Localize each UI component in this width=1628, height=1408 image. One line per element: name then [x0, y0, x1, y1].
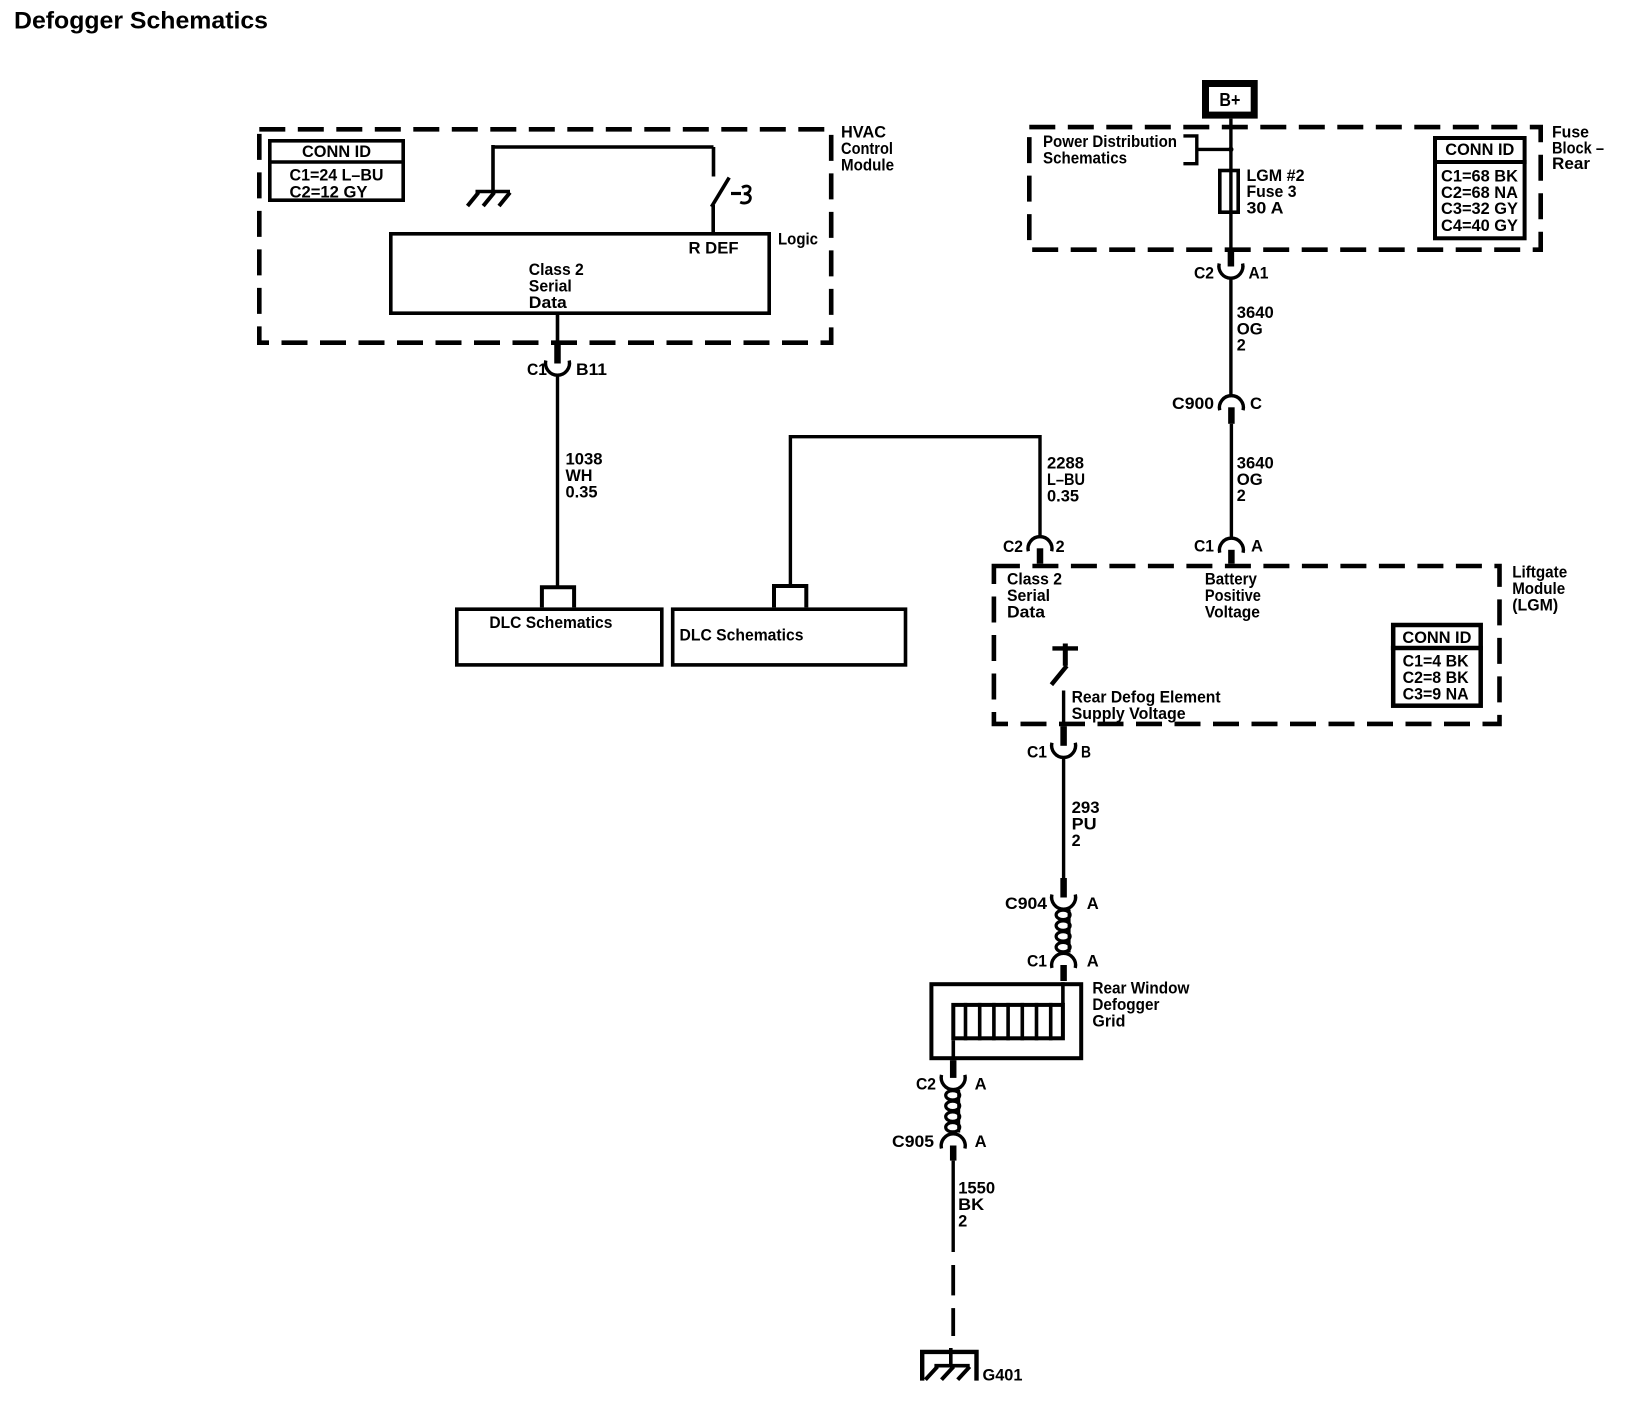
svg-text:C1: C1 [1027, 743, 1047, 762]
wire: ground to switch (internal top wire) [493, 145, 714, 149]
wire 1038 WH 0.35 [556, 376, 559, 588]
svg-text:A: A [975, 1075, 987, 1094]
svg-text:C1: C1 [527, 360, 547, 379]
svg-text:Data: Data [529, 293, 568, 312]
svg-text:(LGM): (LGM) [1512, 596, 1558, 615]
dashed continuation wire to G401 [951, 1265, 955, 1295]
svg-text:C4=40 GY: C4=40 GY [1441, 216, 1519, 235]
svg-text:C900: C900 [1172, 394, 1214, 413]
logic box (Class 2 Serial Data) [391, 234, 769, 313]
svg-text:A: A [1087, 952, 1099, 971]
rear window defogger grid box [931, 984, 1081, 1058]
wire: logic box to C1 B11 [556, 315, 560, 345]
svg-text:C1: C1 [1027, 952, 1047, 971]
svg-text:30 A: 30 A [1247, 198, 1284, 217]
connector C905 A [941, 1134, 965, 1161]
svg-text:B: B [1081, 743, 1091, 762]
svg-text:DLC Schematics: DLC Schematics [489, 613, 612, 632]
svg-text:A: A [1087, 894, 1099, 913]
svg-text:Voltage: Voltage [1205, 602, 1260, 621]
Liftgate Module (LGM) box [994, 566, 1500, 724]
connector C2 A1 (fuse block out) [1219, 249, 1243, 278]
ground G401 bracket [922, 1352, 976, 1381]
svg-text:A: A [975, 1132, 987, 1151]
wire: B+ down to C2 A1 [1229, 119, 1232, 249]
switch actuator squiggle [731, 186, 750, 203]
wire 293 PU 2 [1062, 758, 1065, 880]
DLC Schematics box 1 [457, 609, 662, 665]
wire 1550 BK 2 [952, 1161, 955, 1252]
svg-text:C2: C2 [916, 1075, 936, 1094]
svg-text:Schematics: Schematics [1043, 148, 1127, 167]
wire 3640 OG 2 (upper) [1229, 279, 1232, 397]
svg-text:Data: Data [1007, 602, 1046, 621]
power distribution bracket [1183, 136, 1231, 164]
svg-text:2: 2 [1072, 831, 1081, 850]
svg-text:Grid: Grid [1092, 1012, 1125, 1031]
coiled wire (liftgate flex) upper [1056, 910, 1070, 953]
svg-text:2: 2 [1056, 537, 1065, 556]
svg-text:CONN ID: CONN ID [1402, 628, 1471, 647]
svg-text:2: 2 [1237, 486, 1246, 505]
svg-text:C2: C2 [1194, 264, 1214, 283]
svg-text:0.35: 0.35 [1047, 487, 1079, 506]
HVAC Control Module box [259, 129, 831, 342]
grid element symbol [953, 982, 1063, 1040]
connector C1 A (defogger grid in) [1052, 953, 1076, 981]
Fuse block CONN ID table [1433, 138, 1527, 238]
svg-text:B+: B+ [1219, 90, 1240, 110]
wire into ground bracket [949, 1348, 953, 1364]
svg-text:Rear: Rear [1552, 154, 1590, 173]
svg-text:C2=12 GY: C2=12 GY [290, 183, 369, 202]
svg-text:CONN ID: CONN ID [1445, 140, 1514, 159]
wire 2288 L-BU 0.35 (DLC2 up-over to C2/2) [790, 437, 1040, 586]
svg-text:R DEF: R DEF [689, 239, 739, 258]
svg-text:Defogger Schematics: Defogger Schematics [14, 8, 268, 35]
svg-text:C2: C2 [1003, 537, 1023, 556]
svg-text:Supply Voltage: Supply Voltage [1072, 704, 1186, 723]
svg-text:A1: A1 [1249, 264, 1269, 283]
Fuse Block - Rear box [1029, 127, 1540, 250]
DLC Schematics box 2 [673, 609, 906, 665]
connector C1 A (LGM battery in) [1219, 538, 1243, 564]
svg-text:C905: C905 [892, 1132, 934, 1151]
connector C2 A (grid out) [941, 1060, 965, 1089]
connector C2 2 (LGM serial) [1028, 537, 1052, 564]
coiled wire (liftgate flex) lower [946, 1090, 960, 1133]
HVAC CONN ID table [268, 141, 405, 200]
svg-text:2: 2 [958, 1212, 967, 1231]
connector C1 B11 (HVAC) [546, 345, 570, 375]
wire: down to ground symbol [491, 145, 495, 190]
svg-text:DLC Schematics: DLC Schematics [680, 626, 804, 645]
svg-text:CONN ID: CONN ID [302, 142, 371, 161]
wire: switch to C1 B [1062, 691, 1065, 727]
svg-text:0.35: 0.35 [566, 483, 598, 502]
ground G401 symbol [925, 1366, 969, 1380]
svg-text:C3=9 NA: C3=9 NA [1403, 685, 1469, 704]
svg-text:A: A [1251, 537, 1263, 556]
svg-text:C904: C904 [1005, 894, 1048, 913]
connector C904 A [1052, 878, 1076, 909]
svg-text:C: C [1250, 394, 1262, 413]
fuse LGM #2 Fuse 3 30 A [1220, 171, 1238, 213]
svg-text:Module: Module [841, 156, 894, 175]
wire 3640 OG 2 (lower) [1230, 424, 1233, 538]
connector C1 B (LGM defog out) [1052, 726, 1076, 757]
svg-text:G401: G401 [983, 1366, 1023, 1385]
ground (HVAC internal) [468, 192, 511, 207]
svg-text:C1: C1 [1194, 537, 1214, 556]
DLC Schematics box 1 tab [542, 587, 574, 607]
svg-text:2: 2 [1237, 336, 1246, 355]
svg-text:B11: B11 [576, 360, 607, 379]
LGM CONN ID table [1391, 625, 1483, 706]
junction node dot [1228, 147, 1233, 152]
switch R DEF (HVAC) [712, 147, 730, 232]
DLC Schematics box 2 tab [774, 586, 806, 607]
connector C900 C [1219, 396, 1243, 424]
switch rear defog output (LGM) [1051, 644, 1078, 685]
svg-text:Logic: Logic [778, 230, 818, 249]
B+ battery feed box [1206, 84, 1255, 116]
wire: grid bottom-left exit [951, 1040, 955, 1060]
